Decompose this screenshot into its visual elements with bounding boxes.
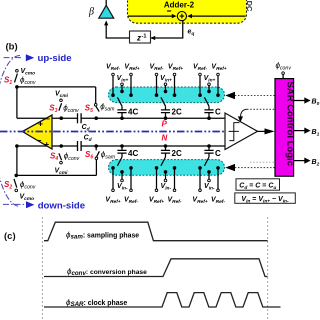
terminal VRef+ (C top) (211, 64, 226, 97)
wire z-1 to beta amplifier (104, 20, 129, 38)
svg-text:+: + (38, 118, 43, 128)
output bit B0 (294, 97, 320, 107)
node N label (162, 134, 168, 143)
terminal Vin- (C bottom) (204, 170, 215, 191)
svg-text:up-side: up-side (38, 53, 72, 64)
down-side arrow and label (26, 200, 85, 211)
switch lever (4C top) (117, 97, 122, 106)
switch S1 (4, 68, 36, 89)
svg-text:-1: -1 (142, 34, 147, 40)
wire node A horizontal to S5 (17, 87, 96, 104)
svg-text:Adder-2: Adder-2 (164, 1, 195, 10)
SAR clock line to comparator (dotted with curved arrow) (238, 109, 275, 122)
switch lever (2C top) (161, 97, 166, 106)
switch lever (2C bottom) (161, 157, 166, 166)
z^-1 delay box (130, 31, 151, 43)
wire from summing node down to z-1 (150, 21, 182, 40)
node e_q label (188, 29, 195, 38)
svg-text:2C: 2C (172, 107, 182, 116)
capacitor 2C (top) (161, 106, 182, 120)
wire into adder (left input) (128, 14, 177, 18)
capacitor Cd (top) (78, 113, 91, 132)
vertical ADC label at right edge of adder box (245, 1, 254, 12)
terminal Vin+ (4C top) (117, 75, 129, 93)
comparator output arrow to SAR logic (258, 128, 275, 134)
switch S4 (50, 144, 80, 176)
switch lever (4C bottom) (117, 157, 122, 166)
wire rail P (top comparator input rail) (17, 117, 225, 119)
terminal Vin- (2C bottom) (161, 170, 172, 191)
capacitor C (top) (204, 106, 221, 120)
terminal Vin+ (2C top) (160, 75, 172, 93)
svg-text:N: N (162, 134, 168, 143)
terminal VRef+ (4C top) (124, 64, 139, 97)
waveform phi_sam (44, 222, 268, 241)
switch S2 (4, 174, 36, 202)
phi_conv terminal of SAR logic (276, 61, 292, 78)
wire node B vertical and horizontal to S6 (15, 144, 96, 175)
svg-text:z: z (136, 34, 141, 43)
terminal VRef+ (2C bottom) (149, 166, 164, 205)
capacitor 2C (bottom) (161, 144, 182, 158)
switch lever (C bottom) (204, 157, 209, 166)
svg-text:SAR Control Logic: SAR Control Logic (284, 82, 295, 166)
wire node A vertical to comparator input (16, 87, 18, 118)
summing node (167, 11, 186, 21)
bottom DAC bus (cyan) (109, 160, 225, 176)
switch lever (C top) (204, 97, 209, 106)
svg-text:2C: 2C (172, 149, 182, 158)
capacitor 4C (bottom) (117, 144, 138, 158)
node P label (162, 120, 168, 129)
formula box Cd = C = Cu (236, 179, 280, 191)
svg-text:(c): (c) (4, 231, 16, 242)
zoom ellipse (blue dash-dot arc) (0, 56, 24, 207)
terminal VRef+ (C bottom) (192, 166, 207, 205)
SAR control logic block (275, 79, 295, 177)
amplifier U1 (yellow, fully differential) (22, 115, 52, 149)
switch S3 (49, 91, 79, 120)
terminal VRef- (C top) (193, 64, 207, 97)
comparator U2 (225, 113, 258, 150)
svg-text:DC: DC (245, 1, 254, 12)
timing guide line left (dashed) (41, 217, 43, 319)
svg-text:C: C (215, 107, 221, 116)
svg-text:C: C (215, 149, 221, 158)
terminal Vin+ (C top) (204, 75, 216, 93)
SAR control line to top bus (dotted, arrow) (225, 92, 275, 99)
terminal VRef- (2C bottom) (168, 166, 182, 205)
terminal VRef- (2C top) (150, 64, 164, 97)
switch S5 (sampling) (85, 102, 115, 120)
faint auxiliary control line (SAR to comparator, lower) (250, 161, 275, 163)
svg-text:P: P (162, 120, 168, 129)
svg-text:4C: 4C (128, 149, 138, 158)
terminal Vin- (4C bottom) (117, 170, 128, 191)
svg-text:β: β (88, 7, 94, 18)
capacitor Cd (bottom) (78, 135, 93, 151)
timing guide line right (dashed) (267, 217, 269, 319)
svg-text:+: + (44, 139, 49, 149)
up-side arrow and label (26, 53, 72, 64)
terminal VRef+ (2C top) (168, 64, 183, 97)
waveform phi_SAR clock (44, 293, 281, 308)
SAR control line to bottom bus (dotted, arrow) (225, 164, 275, 171)
svg-text:down-side: down-side (38, 200, 85, 211)
wire into adder (right input) (187, 14, 245, 18)
top DAC bus (cyan) (109, 87, 225, 103)
output bit B2 (294, 158, 320, 168)
terminal VRef- (C bottom) (211, 166, 225, 205)
switch S6 (sampling) (85, 144, 116, 160)
adder block box (yellow, dashed) (128, 0, 247, 23)
svg-text:4C: 4C (128, 107, 138, 116)
capacitor C (bottom) (204, 144, 221, 158)
svg-text:−: − (37, 136, 42, 145)
wire rail N (bottom comparator input rail) (17, 145, 225, 147)
terminal VRef- (4C top) (106, 64, 120, 97)
beta label (88, 7, 94, 18)
beta amplifier (triangle) (99, 0, 114, 18)
capacitor 4C (top) (117, 106, 138, 120)
symmetry axis (dash-dot) (0, 131, 225, 133)
terminal VRef+ (4C bottom) (105, 166, 120, 205)
waveform phi_conv (44, 259, 268, 277)
terminal VRef- (4C bottom) (124, 166, 138, 205)
svg-text:−: − (45, 115, 50, 124)
svg-text:(b): (b) (6, 42, 18, 53)
output bit B1 (294, 128, 320, 138)
(b) panel label (6, 42, 18, 53)
(c) panel label (4, 231, 16, 242)
formula box Vin = Vin+ - Vin- (235, 193, 295, 204)
